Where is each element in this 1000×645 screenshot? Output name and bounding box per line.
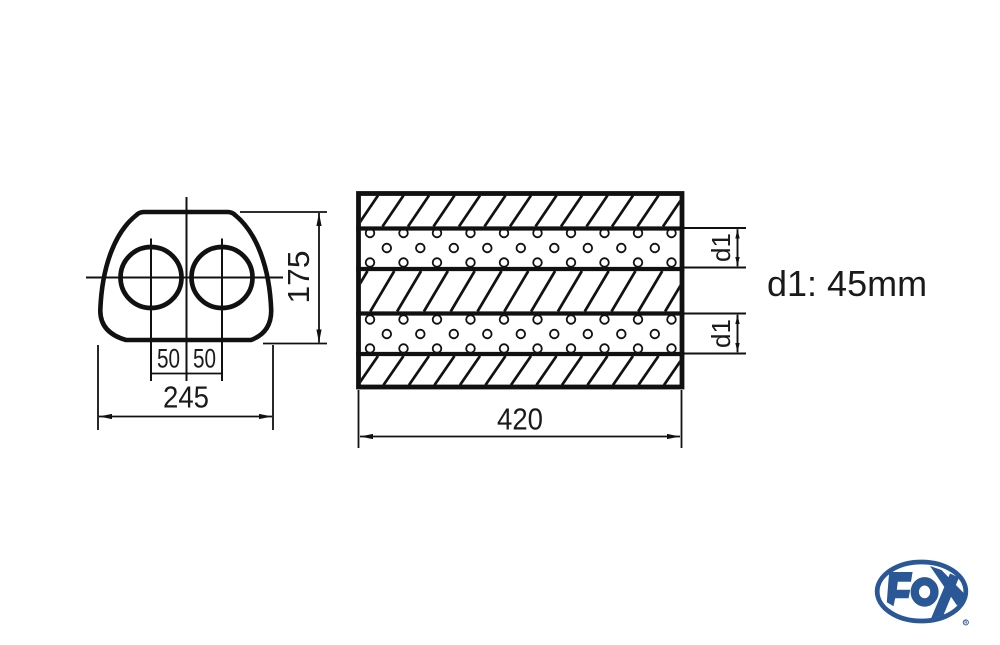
right tail pipe circle <box>192 247 253 308</box>
logo ellipse ring <box>877 562 966 621</box>
logo letter X stroke backslash <box>930 566 968 606</box>
pipe wall line 3 <box>356 311 684 315</box>
dimension 420 extension left <box>358 390 360 448</box>
logo letter O (ring) <box>915 581 935 602</box>
svg-text:d1: d1 <box>706 233 736 262</box>
d1 lower extension bottom <box>684 353 746 355</box>
svg-text:245: 245 <box>163 380 209 415</box>
hatch band bottom <box>333 356 710 385</box>
svg-text:420: 420 <box>497 402 543 437</box>
dimension 245 extension left <box>97 345 99 430</box>
body outline (rounded trapezoid with bulged sides) <box>100 212 271 340</box>
dimension 175 line with arrows <box>318 213 320 343</box>
hatch band middle <box>344 271 716 312</box>
centerline horizontal through circles <box>86 277 283 279</box>
pipe wall line 4 <box>356 352 684 356</box>
dimension 175 extension bottom <box>263 343 327 345</box>
pipe wall line 1 <box>356 226 684 230</box>
centerline vertical right circle <box>221 239 223 382</box>
dimension 245 line with arrows <box>99 416 272 418</box>
dimension 420 line with arrows <box>360 436 680 438</box>
left tail pipe circle <box>121 247 182 308</box>
hatch band top <box>332 196 710 227</box>
centerline vertical left circle <box>150 239 152 382</box>
perforated pipe band upper (dots) <box>366 229 676 267</box>
dimension 175 extension top <box>240 211 327 213</box>
svg-text:50: 50 <box>193 344 216 374</box>
logo letter X stroke slash <box>931 574 959 619</box>
d1 upper dimension line <box>737 229 739 266</box>
dimension 245 extension right <box>272 345 274 430</box>
shell outline rectangle <box>359 194 683 388</box>
logo letter F <box>887 572 913 606</box>
svg-text:d1: d1 <box>706 319 736 348</box>
d1 upper extension bottom <box>684 267 746 269</box>
d1 lower extension top <box>684 313 746 315</box>
svg-text:50: 50 <box>157 344 180 374</box>
centerline vertical main <box>186 197 188 381</box>
logo registered mark <box>963 620 968 625</box>
svg-text:175: 175 <box>281 251 316 304</box>
d1 upper extension top <box>684 227 746 229</box>
dimension 420 extension right <box>681 390 683 448</box>
perforated pipe band lower (dots) <box>366 315 676 353</box>
d1 lower dimension line <box>737 315 739 353</box>
svg-text:d1: 45mm: d1: 45mm <box>767 263 927 304</box>
dimension 50 (right) line <box>187 373 223 375</box>
dimension 50 (left) line <box>151 373 187 375</box>
pipe wall line 2 <box>356 267 684 271</box>
